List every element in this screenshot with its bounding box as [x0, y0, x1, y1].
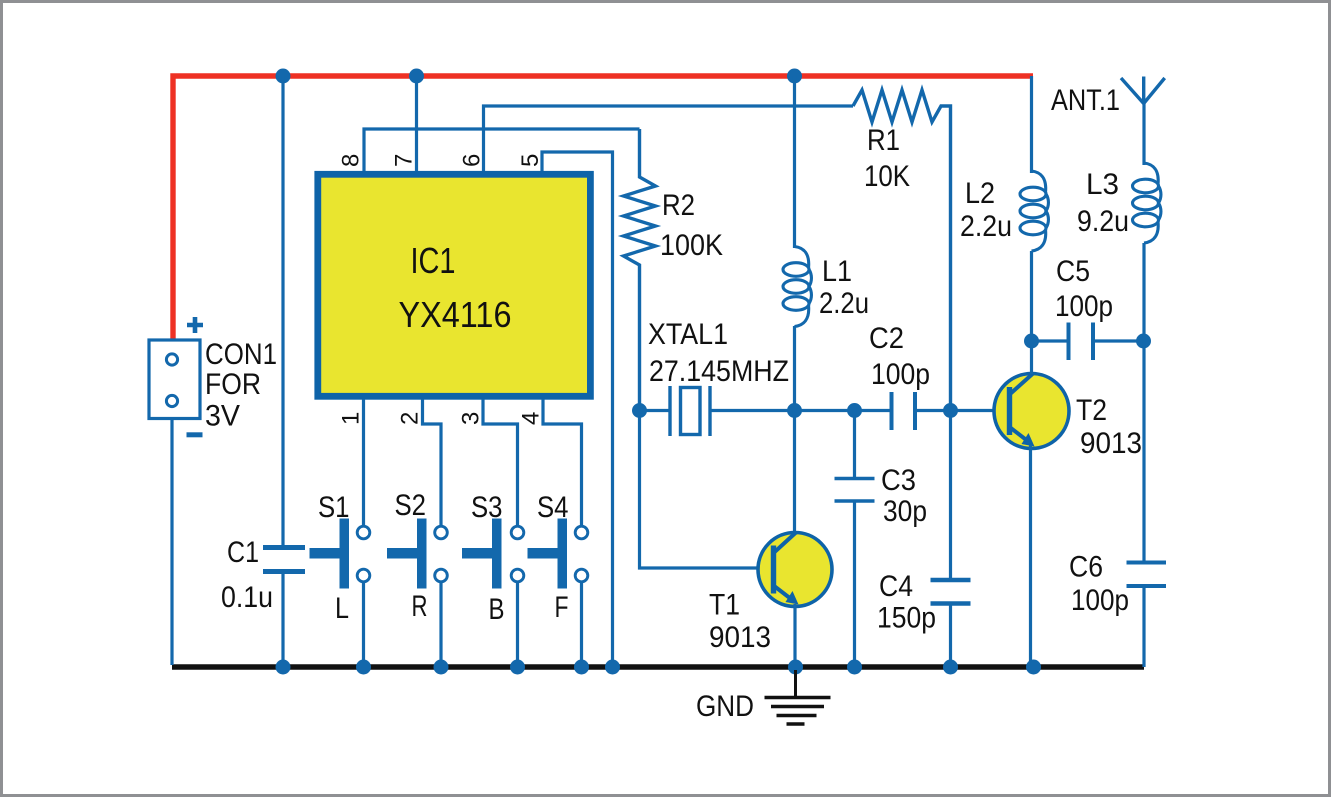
pin 3 label	[458, 412, 485, 425]
svg-text:IC1: IC1	[411, 240, 456, 281]
node dot Vcc / L1 branch	[787, 69, 802, 84]
node dot T2 emitter ground	[1026, 660, 1041, 675]
node dot C4 ground	[943, 660, 958, 675]
wire pin 8 to R2 top	[364, 129, 640, 171]
svg-text:30p: 30p	[883, 495, 927, 528]
svg-text:9013: 9013	[709, 621, 771, 654]
node A : R2 / XTAL1 / T1 base junction	[632, 403, 647, 418]
switch S1	[310, 491, 370, 625]
svg-text:ANT.1: ANT.1	[1051, 84, 1120, 117]
svg-text:S2: S2	[395, 489, 427, 522]
node dot S2 ground	[434, 660, 449, 675]
wire T2 emitter to ground	[1029, 445, 1032, 665]
wire Vcc red bus	[173, 76, 1033, 341]
connector CON1	[149, 317, 277, 435]
wire L2 to node D	[1030, 251, 1033, 341]
wire Vcc to L1	[793, 76, 796, 248]
svg-text:R2: R2	[662, 189, 695, 222]
svg-text:2.2u: 2.2u	[819, 287, 869, 320]
svg-text:C6: C6	[1069, 551, 1103, 584]
svg-text:100K: 100K	[660, 229, 723, 262]
wire CON1 minus to ground	[170, 419, 173, 666]
ground GND symbol	[696, 670, 831, 724]
wire pin 1 to S1	[362, 399, 365, 527]
svg-text:L1: L1	[822, 255, 852, 288]
svg-text:8: 8	[338, 154, 365, 167]
svg-text:5: 5	[517, 154, 544, 167]
svg-text:B: B	[489, 593, 505, 626]
svg-text:S1: S1	[318, 491, 350, 524]
wire node B to C2	[795, 409, 892, 412]
svg-text:0.1u: 0.1u	[221, 581, 273, 614]
svg-text:10K: 10K	[864, 160, 910, 193]
svg-text:1: 1	[338, 412, 365, 425]
pin 2 label	[397, 412, 424, 425]
svg-text:C3: C3	[881, 464, 916, 497]
svg-text:S3: S3	[471, 491, 503, 524]
capacitor C1	[221, 536, 305, 614]
wire L1 to node B	[793, 326, 796, 411]
node B : L1 / XTAL1 / T1 collector junction	[787, 403, 802, 418]
wire pin 2 to S2	[423, 399, 442, 527]
wire L3 to node E	[1142, 243, 1145, 341]
pin 6 label	[459, 154, 486, 167]
node dot C1 ground	[276, 660, 291, 675]
wire pin 3 to S3	[483, 399, 518, 527]
wire pin 6 to R1	[484, 106, 854, 171]
wire S2 to ground	[439, 582, 442, 665]
svg-text:9.2u: 9.2u	[1077, 205, 1129, 238]
svg-text:CON1: CON1	[205, 338, 277, 371]
IC U1 YX4116	[318, 174, 591, 396]
transistor T1 9013	[709, 532, 832, 654]
svg-text:7: 7	[391, 154, 418, 167]
svg-text:YX4116: YX4116	[399, 294, 512, 335]
node dot S3 ground	[510, 660, 525, 675]
node E : C5 / L3 / C6 junction	[1136, 334, 1151, 349]
svg-text:3: 3	[458, 412, 485, 425]
wire node B to T1 collector	[793, 411, 796, 535]
wire node E to C6	[1142, 341, 1145, 563]
svg-text:100p: 100p	[1055, 290, 1113, 323]
wire Vcc to C1	[281, 76, 284, 548]
capacitor C5 100p	[1032, 255, 1144, 360]
wire C1 to ground	[281, 572, 284, 666]
capacitor C3 30p	[835, 411, 928, 666]
capacitor C2 100p	[869, 322, 951, 430]
node dot C3 top	[847, 403, 862, 418]
antenna ANT.1	[1051, 77, 1165, 118]
wire Vcc end to L2	[1030, 76, 1033, 173]
switch S3	[462, 491, 524, 626]
svg-text:XTAL1: XTAL1	[648, 318, 728, 351]
wire S1 to ground	[362, 582, 365, 665]
inductor L2 2.2u	[960, 171, 1048, 251]
node dot on Vcc at C1 branch	[276, 69, 291, 84]
capacitor C4 150p	[877, 411, 971, 666]
svg-text:100p: 100p	[871, 358, 930, 391]
svg-text:FOR: FOR	[205, 368, 261, 401]
svg-text:150p: 150p	[877, 602, 936, 635]
svg-text:L: L	[335, 592, 349, 625]
svg-text:6: 6	[459, 154, 486, 167]
pin 4 label	[518, 412, 545, 425]
svg-text:S4: S4	[537, 491, 569, 524]
svg-text:27.145MHZ: 27.145MHZ	[649, 355, 789, 388]
node dot S4 ground	[574, 660, 589, 675]
svg-text:R: R	[412, 590, 428, 623]
svg-text:GND: GND	[696, 690, 754, 723]
svg-text:R1: R1	[867, 124, 900, 157]
svg-text:L3: L3	[1086, 168, 1119, 201]
wire GND black bus	[172, 664, 1144, 669]
svg-text:T1: T1	[709, 589, 740, 622]
switch S4	[528, 491, 588, 624]
wire pin 4 to S4	[543, 399, 582, 527]
resistor R2	[624, 129, 724, 409]
wire node A to T1 base	[640, 411, 759, 569]
svg-text:C1: C1	[227, 536, 259, 569]
wire S3 to ground	[516, 582, 519, 665]
pin 7 label	[391, 154, 418, 167]
pin 5 label	[517, 154, 544, 167]
wire node D to T2 collector	[1030, 341, 1033, 374]
svg-text:C2: C2	[869, 322, 904, 355]
svg-text:2.2u: 2.2u	[960, 210, 1012, 243]
switch S2	[387, 489, 447, 623]
inductor L3 9.2u	[1077, 163, 1161, 243]
wire T1 emitter to ground	[793, 604, 796, 665]
inductor L1 2.2u	[783, 247, 869, 327]
svg-text:C5: C5	[1056, 255, 1090, 288]
node dot T1 emitter ground	[788, 660, 803, 675]
svg-text:9013: 9013	[1080, 427, 1142, 460]
node dot pin5 ground	[605, 660, 620, 675]
crystal XTAL1 27.145MHZ	[640, 318, 795, 436]
pin 1 label	[338, 412, 365, 425]
transistor T2 9013	[994, 374, 1142, 461]
wire pin 5 to ground	[542, 152, 613, 665]
svg-text:F: F	[555, 591, 569, 624]
svg-text:4: 4	[518, 412, 545, 425]
wire node C to T2 base	[951, 409, 1010, 412]
node dot pin7 Vcc	[409, 69, 424, 84]
pin 8 label	[338, 154, 365, 167]
wire S4 to ground	[580, 582, 583, 665]
svg-text:3V: 3V	[205, 400, 240, 433]
svg-text:L2: L2	[965, 177, 995, 210]
wire pin 7 to Vcc	[415, 76, 418, 171]
node C : R1 / C2 / C4 / T2 base junction	[943, 403, 958, 418]
node dot S1 ground	[356, 660, 371, 675]
resistor R1	[853, 90, 951, 409]
node dot C3 ground	[847, 660, 862, 675]
svg-text:C4: C4	[879, 570, 913, 603]
wire antenna to L3	[1142, 101, 1145, 165]
capacitor C6 100p	[1069, 551, 1166, 668]
node D : L2 / C5 / T2 collector junction	[1024, 334, 1039, 349]
svg-text:100p: 100p	[1071, 584, 1129, 617]
svg-text:T2: T2	[1076, 394, 1107, 427]
svg-text:2: 2	[397, 412, 424, 425]
